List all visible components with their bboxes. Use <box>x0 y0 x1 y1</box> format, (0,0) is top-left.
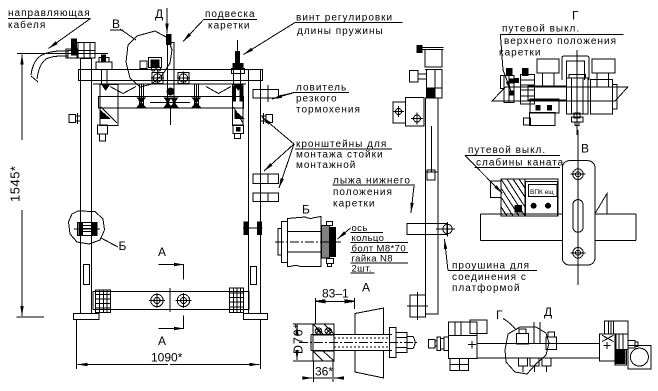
svg-text:Б: Б <box>302 203 310 217</box>
svg-text:каретки: каретки <box>208 21 251 32</box>
svg-text:ловитель: ловитель <box>296 83 347 94</box>
svg-text:длины пружины: длины пружины <box>297 26 384 37</box>
svg-text:тормохения: тормохения <box>296 105 361 116</box>
svg-text:каретки: каретки <box>499 48 542 59</box>
svg-text:1545*: 1545* <box>8 166 23 202</box>
svg-text:83–1: 83–1 <box>322 287 349 301</box>
svg-text:Г: Г <box>572 9 579 23</box>
svg-text:винт регулировки: винт регулировки <box>296 13 393 24</box>
svg-text:1090*: 1090* <box>151 351 183 365</box>
svg-text:верхнего положения: верхнего положения <box>504 36 617 47</box>
svg-text:А: А <box>158 334 166 348</box>
svg-text:кабеля: кабеля <box>8 19 46 31</box>
svg-text:проушина для: проушина для <box>452 261 530 272</box>
svg-text:монтажной: монтажной <box>296 160 356 171</box>
svg-text:Д: Д <box>544 305 552 319</box>
svg-text:36*: 36* <box>315 365 333 379</box>
svg-text:каретки: каретки <box>333 199 376 210</box>
svg-text:монтажа стойки: монтажа стойки <box>296 150 384 161</box>
svg-text:2шт.: 2шт. <box>352 264 372 275</box>
svg-text:В: В <box>112 17 120 31</box>
svg-text:путевой выкл.: путевой выкл. <box>468 145 546 156</box>
svg-text:А: А <box>158 245 166 259</box>
svg-text:кольцо: кольцо <box>352 233 385 244</box>
svg-text:Д: Д <box>155 7 163 21</box>
svg-text:ВПК ещ: ВПК ещ <box>530 189 554 196</box>
svg-text:подвеска: подвеска <box>205 9 256 20</box>
svg-text:платформой: платформой <box>452 282 521 294</box>
svg-text:А: А <box>362 281 370 295</box>
svg-text:D70*: D70* <box>292 323 306 354</box>
svg-text:направляющая: направляющая <box>8 8 91 19</box>
svg-text:резкого: резкого <box>296 94 338 105</box>
svg-text:слабины каната: слабины каната <box>476 157 564 169</box>
svg-text:В: В <box>581 142 589 156</box>
svg-text:Б: Б <box>119 239 127 253</box>
svg-text:соединения с: соединения с <box>452 272 527 283</box>
svg-text:кронштейны для: кронштейны для <box>296 139 387 150</box>
svg-text:путевой выкл.: путевой выкл. <box>502 24 580 35</box>
svg-text:положения: положения <box>333 187 393 198</box>
svg-text:лыжа нижнего: лыжа нижнего <box>333 176 411 187</box>
svg-text:Г: Г <box>496 308 503 322</box>
